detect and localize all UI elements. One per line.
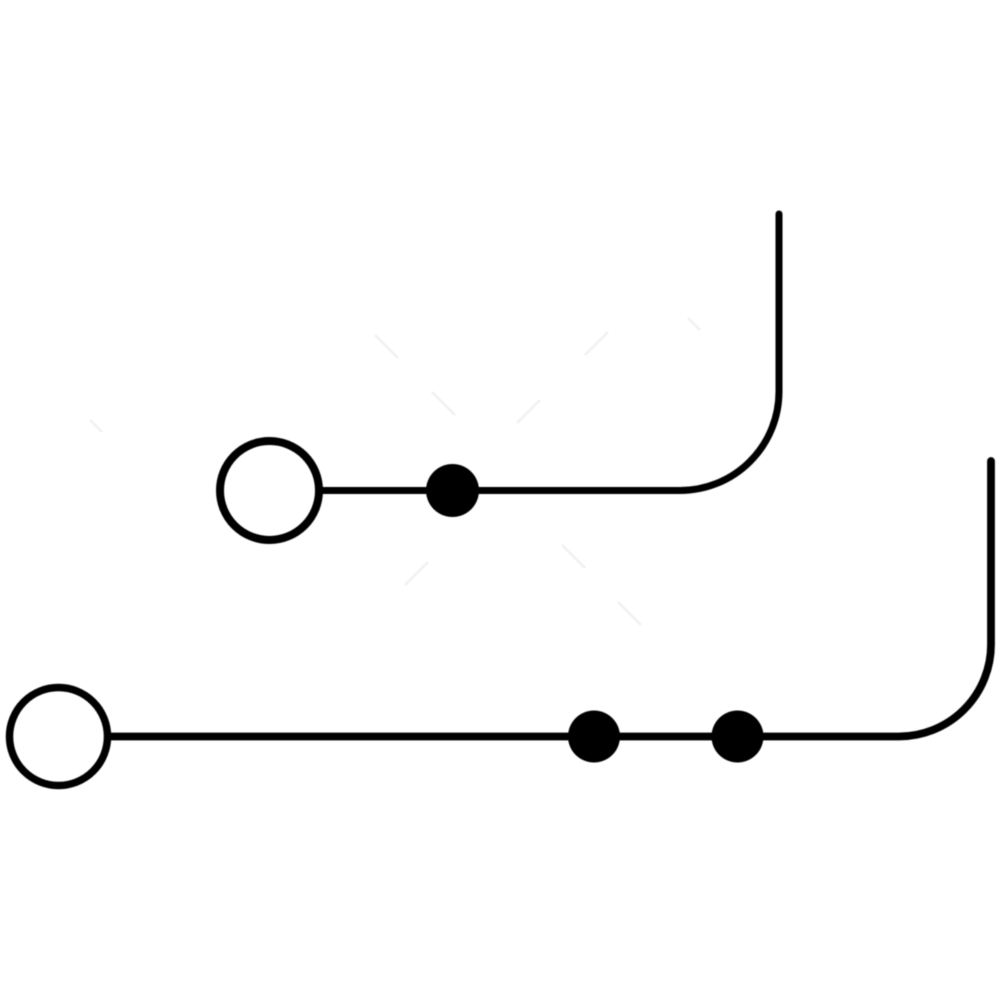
terminal circle P1 (upper) [220,441,319,540]
wire lower: horizontal run with corner up to vertical stub [111,461,991,737]
wire upper: horizontal run with corner up to vertical stub [322,214,779,491]
junction dot J2 on lower wire [568,711,620,763]
junction dot J3 on lower wire [712,711,764,763]
watermark marks (faint) [90,318,700,625]
terminal circle P2 (lower) [10,688,108,786]
junction dot J1 on upper wire [426,464,479,517]
